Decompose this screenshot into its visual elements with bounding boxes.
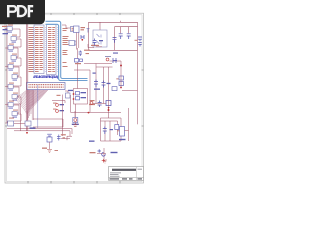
- power supply input loop wires: [89, 21, 138, 51]
- junction dot lower middle: [88, 112, 90, 114]
- frame tick marks: [5, 13, 144, 184]
- diode D1 below jack: [81, 35, 84, 41]
- net label top mid-right: [113, 53, 118, 54]
- value label small right: [55, 149, 59, 152]
- IC1 ATmega8 body: [47, 25, 57, 75]
- wire crossing blue vertical: [37, 85, 39, 128]
- capacitor C4: [135, 37, 143, 47]
- wire parts row: [93, 103, 106, 105]
- IC1 right pin net labels: [63, 28, 69, 67]
- supply node +5V: [96, 40, 103, 47]
- gate box spare lower: [69, 41, 75, 46]
- origin cross mark: [102, 159, 106, 163]
- value label 22p: [110, 129, 114, 130]
- gate IC3E: [8, 65, 13, 69]
- capacitor C3: [119, 34, 131, 39]
- gate IC3B: [11, 37, 16, 41]
- PDF badge overlay: [0, 0, 149, 198]
- capacitor C14: [79, 51, 89, 57]
- capacitor C6: [87, 29, 90, 33]
- diode D3 stage box: [12, 95, 17, 99]
- net label GND loop bottom: [89, 141, 95, 142]
- diode pair top mid-right: [75, 59, 83, 65]
- value label R7: [89, 104, 95, 105]
- title block right cell text: [138, 169, 143, 170]
- wire from SV1 to LEDs: [52, 91, 76, 112]
- diode D2 symbols: [110, 58, 123, 67]
- resistor R10 box: [12, 112, 17, 116]
- wire staircase top right: [62, 25, 79, 89]
- gate IC3 spare box: [66, 93, 71, 98]
- gate chain value labels: [8, 25, 18, 119]
- wire fan ribbon fill: [26, 90, 48, 113]
- ground symbol below LED POWER: [73, 123, 77, 127]
- wire X2 down: [76, 33, 94, 50]
- junction dot reset: [108, 109, 110, 111]
- wire lower middle: [75, 104, 121, 118]
- rectifier bridge box: [93, 30, 107, 47]
- schematic frame inner border: [7, 15, 143, 182]
- wire from right into cluster: [50, 136, 73, 149]
- wire stubs from left border: [5, 29, 8, 124]
- capacitor C2: [113, 38, 117, 43]
- transistor T1 symbol: [111, 127, 126, 154]
- resistor R8 box: [106, 101, 111, 106]
- capacitor C12: [103, 127, 107, 135]
- wires mid right: [74, 50, 138, 124]
- LED POWER lower: [72, 111, 79, 125]
- net label PWR small: [68, 90, 73, 91]
- gate IC3F: [12, 75, 17, 79]
- LED L1 and label: [53, 103, 64, 107]
- title block title bar: [112, 169, 136, 171]
- value label near supply: [90, 152, 96, 153]
- supply branch near title: [97, 148, 106, 159]
- wire ribbon vertical bundle: [26, 90, 33, 120]
- wire right verticals: [125, 108, 129, 141]
- pin stubs IC1 left: [33, 27, 57, 72]
- LED L4 ring: [90, 100, 95, 104]
- gate IC3A: [7, 27, 12, 31]
- crystal Q1 symbol: [115, 125, 119, 130]
- ground symbol GND1: [47, 150, 52, 153]
- capacitor C10 dashes: [47, 134, 52, 136]
- capacitor C8 pair: [102, 81, 111, 88]
- title block frame: [109, 167, 144, 181]
- connector SV1 header strip: [27, 83, 65, 90]
- net label GND bottom row: [30, 127, 36, 128]
- capacitor C7: [94, 80, 98, 88]
- gate chain blue sublabels: [8, 32, 18, 118]
- resistor R4 small: [71, 41, 76, 45]
- connector ICSP box: [71, 27, 78, 32]
- value label 7805 output: [84, 45, 99, 51]
- zener pair cluster: [116, 76, 123, 88]
- gate IC3D: [11, 56, 16, 60]
- diode D4 stage box: [8, 103, 13, 107]
- bus digital pins vertical pair: [46, 21, 88, 80]
- connector SV4 body: [34, 25, 44, 74]
- net label TITLE text ARDUINO SEVERINO: [33, 75, 58, 79]
- title block text lines: [110, 172, 121, 176]
- supply symbol +5V flag: [98, 149, 106, 156]
- schematic frame outer border: [5, 13, 144, 183]
- power-on subcircuit loop: [74, 89, 88, 105]
- wire loop bottom middle: [33, 119, 63, 127]
- reset button S1 box: [47, 137, 52, 142]
- gate IC3C: [8, 46, 13, 50]
- capacitor C5: [93, 39, 97, 46]
- gate IC3G box bottom row: [25, 121, 31, 126]
- power arrow mark: [108, 107, 110, 109]
- resistor R11 box: [8, 121, 14, 126]
- bus entry component: [112, 87, 117, 91]
- LED L2 and label: [53, 109, 64, 113]
- IC1 ATmega8 left pin labels column: [29, 27, 35, 72]
- wire fan ribbon to connector: [15, 90, 48, 114]
- jumper SJ1 pads: [73, 92, 86, 100]
- wire vertical pair net RX/TX left bundle: [26, 24, 28, 131]
- wire reset vertical: [108, 92, 110, 118]
- serial interface gate chain wires: [7, 25, 72, 136]
- transistor T2 stage box: [8, 85, 13, 89]
- capacitor C9: [98, 101, 102, 108]
- connector X1 DB9 labels: [2, 26, 8, 35]
- capacitor C13 vertical: [57, 134, 66, 140]
- value label near gate box: [57, 95, 61, 96]
- LED L3 ring: [105, 56, 111, 61]
- junction dot bottom wire: [26, 132, 28, 134]
- power jack X2: [74, 26, 86, 33]
- title block bottom cells: [110, 178, 143, 179]
- value label GND text: [42, 148, 47, 149]
- crystal circuit loop: [101, 118, 122, 141]
- wire long vertical from SV1: [61, 95, 63, 137]
- value label C15: [93, 73, 96, 74]
- value label 100n: [94, 89, 100, 90]
- ground symbol GND3: [103, 160, 107, 163]
- sheet background: [0, 0, 149, 198]
